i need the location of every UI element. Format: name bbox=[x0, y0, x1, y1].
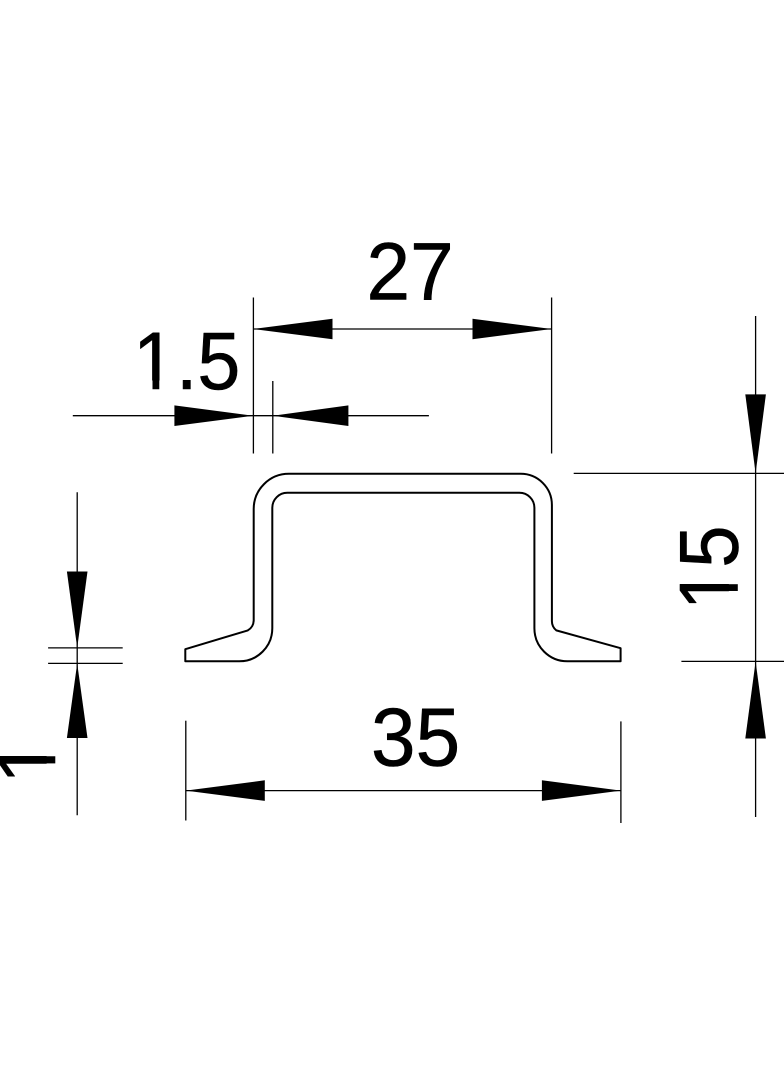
dim line bbox=[253, 328, 551, 330]
arrow left bbox=[253, 319, 332, 340]
arrow up bbox=[67, 663, 88, 738]
svg-text:27: 27 bbox=[367, 225, 454, 317]
arrow down bbox=[67, 572, 88, 648]
ext line left (shared with 1.5) bbox=[252, 298, 254, 454]
ext bottom bbox=[681, 660, 784, 662]
arrow right bbox=[542, 780, 621, 801]
svg-text:1: 1 bbox=[0, 738, 73, 784]
dim line bbox=[73, 415, 429, 417]
dim 1 bbox=[0, 492, 123, 815]
ext line right bbox=[551, 298, 553, 454]
arrow down bbox=[745, 394, 766, 473]
label "27" bbox=[367, 225, 454, 317]
dim line bbox=[186, 790, 621, 792]
dim 27 bbox=[253, 225, 551, 454]
ext bottom bbox=[48, 662, 123, 664]
label "35" bbox=[371, 691, 460, 783]
dim line bbox=[755, 316, 757, 817]
arrow pointing right bbox=[174, 405, 253, 426]
arrow left bbox=[186, 780, 265, 801]
dim line bbox=[76, 492, 78, 815]
arrow pointing left bbox=[273, 405, 349, 426]
dim 1.5 bbox=[73, 315, 429, 454]
label "15" rotated (serif of digit 1 masked) bbox=[662, 525, 755, 610]
arrow up bbox=[745, 661, 766, 738]
ext line right short bbox=[272, 381, 274, 454]
ext left bbox=[185, 721, 187, 821]
ext top bbox=[48, 647, 123, 649]
ext right bbox=[620, 721, 622, 823]
dim 15 bbox=[574, 316, 784, 817]
svg-text:15: 15 bbox=[662, 525, 755, 610]
svg-text:1.5: 1.5 bbox=[133, 315, 240, 407]
profile outline (DIN rail cross-section) bbox=[185, 474, 620, 662]
svg-text:35: 35 bbox=[371, 691, 460, 783]
label "1.5" (serif of digit 1 masked) bbox=[133, 315, 240, 407]
arrow right bbox=[473, 319, 552, 340]
dim 35 bbox=[186, 691, 621, 823]
ext top bbox=[574, 472, 784, 474]
label "1" rotated (serif of digit 1 masked) bbox=[0, 738, 73, 784]
